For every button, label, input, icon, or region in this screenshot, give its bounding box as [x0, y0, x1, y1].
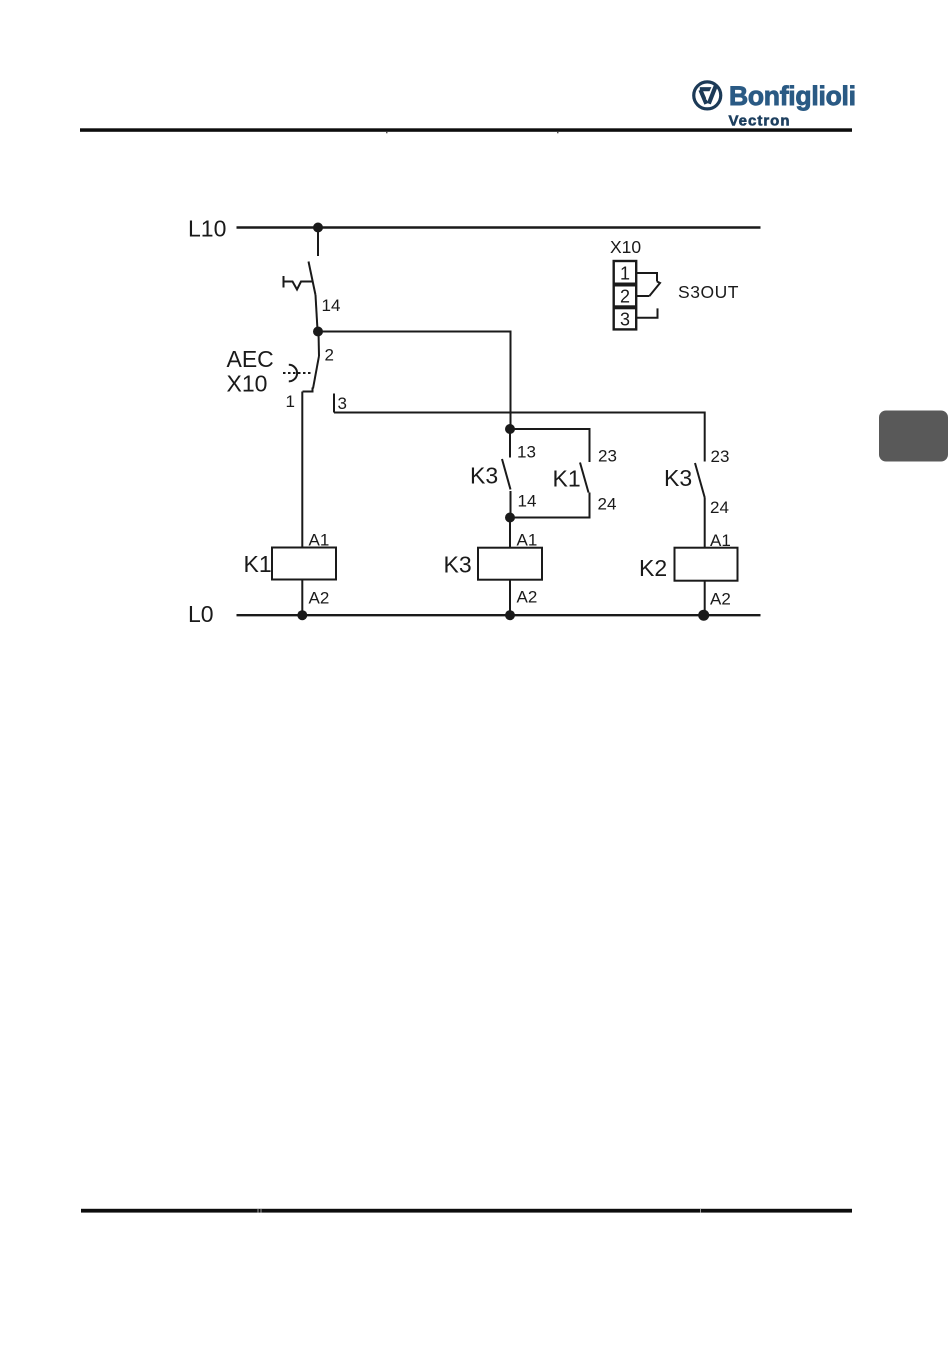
svg-text:K1: K1 — [244, 551, 272, 577]
wire K1 coil to L0 — [301, 580, 303, 616]
contact K3 13-14 blade — [502, 459, 511, 490]
svg-text:13: 13 — [517, 443, 536, 462]
footer rule — [81, 1209, 852, 1213]
S3OUT contact pin2 lead — [636, 295, 649, 297]
svg-text:X10: X10 — [227, 371, 268, 397]
svg-text:A2: A2 — [710, 590, 731, 609]
terminal block X10 outline — [614, 261, 637, 329]
footer rule slits — [258, 1209, 259, 1213]
terminal divider 1-2 — [614, 283, 637, 287]
wire K2 coil to L0 — [704, 581, 706, 616]
pin label 3 with tick — [333, 394, 335, 413]
svg-text:A2: A2 — [309, 589, 330, 608]
contact K3 23-24 blade (right) — [695, 463, 705, 498]
svg-text:X10: X10 — [610, 237, 641, 257]
S3OUT contact pin3 lead — [636, 308, 657, 317]
contact AEC X10 blade — [313, 356, 319, 389]
svg-text:S3OUT: S3OUT — [678, 282, 739, 302]
wire contact to node — [316, 295, 318, 330]
svg-text:24: 24 — [710, 498, 729, 517]
svg-text:K3: K3 — [664, 465, 692, 491]
junction dot node 14 — [505, 513, 515, 523]
svg-text:K1: K1 — [553, 466, 581, 492]
wire parallel branch top — [510, 429, 590, 462]
contact K3 lower stub — [510, 491, 512, 518]
svg-text:23: 23 — [598, 447, 617, 466]
svg-text:3: 3 — [620, 310, 630, 330]
junction dot L0/K2 — [698, 610, 709, 621]
wire AEC contact to K1 coil — [301, 392, 303, 548]
junction dot node 2 — [313, 327, 323, 337]
coil K3 — [478, 548, 542, 580]
svg-text:Bonfiglioli: Bonfiglioli — [729, 81, 856, 111]
svg-text:A1: A1 — [517, 531, 538, 550]
junction dot L0/K3 — [505, 610, 515, 620]
svg-text:2: 2 — [620, 287, 630, 307]
svg-text:14: 14 — [518, 492, 537, 511]
svg-text:K3: K3 — [444, 552, 472, 578]
svg-text:K3: K3 — [470, 463, 498, 489]
svg-text:2: 2 — [325, 346, 334, 365]
svg-text:L0: L0 — [188, 601, 214, 627]
coil K2 — [675, 548, 738, 581]
svg-text:14: 14 — [322, 296, 341, 315]
wire stub from L10 dot — [317, 228, 319, 257]
proximity actuator dotted line — [283, 372, 311, 374]
wire node2 to right branch — [318, 332, 511, 430]
junction dot on L10 — [313, 223, 323, 233]
svg-text:L10: L10 — [188, 216, 226, 242]
contact AEC X10 top stub — [318, 332, 321, 357]
junction dot L0/K1 — [297, 610, 307, 620]
S3OUT contact pin1 lead — [636, 273, 657, 282]
header rule — [80, 128, 852, 132]
S3OUT contact blade — [649, 282, 660, 297]
svg-text:1: 1 — [620, 264, 630, 284]
wire contact to K2 coil — [704, 498, 706, 548]
svg-text:AEC: AEC — [227, 346, 274, 372]
contact K1 lower stub + parallel branch bottom wire — [510, 493, 590, 518]
manual actuator symbol — [284, 276, 313, 290]
svg-text:K2: K2 — [639, 555, 667, 581]
wire node14 to K3 coil — [509, 518, 511, 548]
header rule cell ticks — [386, 132, 388, 134]
svg-text:23: 23 — [711, 447, 730, 466]
svg-text:A2: A2 — [517, 588, 538, 607]
Bonfiglioli logo emblem (circle with triangle mark) — [694, 82, 721, 109]
junction dot node 13 — [505, 424, 515, 434]
wire node 3 to K2 branch — [334, 413, 705, 462]
contact AEC X10 fixed seat — [303, 388, 313, 392]
wire K3 coil to L0 — [509, 580, 511, 616]
contact K3 13-14 top stub — [509, 429, 511, 458]
svg-text:1: 1 — [286, 392, 295, 411]
svg-text:24: 24 — [598, 495, 617, 514]
coil K1 — [272, 548, 336, 580]
wire L10 rail — [237, 226, 761, 228]
svg-text:3: 3 — [338, 394, 347, 413]
section tab (gray) — [879, 411, 948, 462]
svg-text:Vectron: Vectron — [729, 113, 790, 130]
wire L0 rail — [237, 614, 761, 616]
contact S1 blade (NO contact 14) — [309, 262, 316, 296]
terminal divider 2-3 — [614, 305, 637, 309]
contact K1 23-24 blade — [580, 463, 589, 493]
proximity actuator arc — [289, 365, 297, 382]
